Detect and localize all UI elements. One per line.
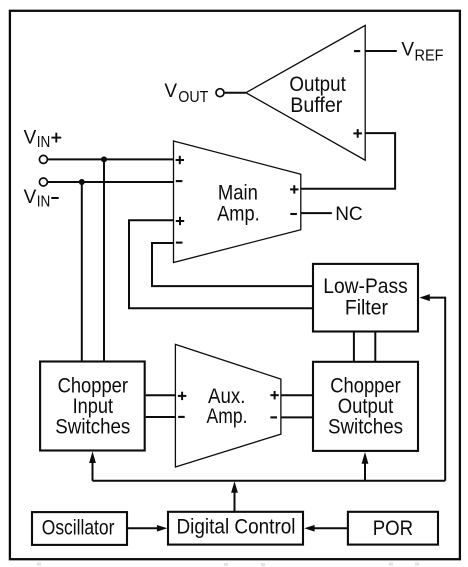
terminal VIN- open circle <box>39 178 47 186</box>
svg-text:Digital Control: Digital Control <box>177 516 296 539</box>
block Chopper Output Switches <box>313 362 418 451</box>
op-amp U3 Aux Amp <box>175 344 281 467</box>
svg-text:POR: POR <box>373 517 413 540</box>
label VOUT <box>164 81 208 106</box>
label VREF <box>401 40 443 65</box>
U1 output plus sign <box>290 185 298 193</box>
wire U1 output minus to NC <box>301 212 332 214</box>
svg-text:Filter: Filter <box>345 297 388 320</box>
terminal VOUT open circle <box>216 89 224 97</box>
wire U3 plus output to Chopper Output Switches <box>281 394 313 396</box>
wire VIN- junction down to Chopper Input Switches <box>81 182 83 362</box>
cut-off caption remnants below frame <box>37 563 419 567</box>
wire U3 minus output to Chopper Output Switches <box>281 416 313 418</box>
wire 2 Low-Pass Filter to Chopper Output Switches <box>374 331 376 362</box>
svg-text:Buffer: Buffer <box>290 94 342 117</box>
svg-text:Low-Pass: Low-Pass <box>323 275 407 298</box>
block Oscillator <box>32 512 127 545</box>
U1 output minus sign <box>290 213 297 215</box>
arrow bus into Chopper Output Switches <box>362 452 369 481</box>
wire U2 minus input to VREF <box>365 50 397 52</box>
block Low-Pass Filter <box>313 264 418 332</box>
svg-text:Chopper: Chopper <box>330 375 400 398</box>
wire 1 Low-Pass Filter to Chopper Output Switches <box>353 331 355 362</box>
svg-text:Amp.: Amp. <box>207 405 248 428</box>
svg-text:Chopper: Chopper <box>58 375 128 398</box>
wire control bus from digital control <box>93 480 446 482</box>
op-amp U1 Main Amp <box>174 141 301 263</box>
label NC no connect <box>335 204 362 225</box>
wire VIN+ junction down to Chopper Input Switches <box>103 159 105 361</box>
wire Chopper Input Switches to U3 input 2 <box>146 416 176 418</box>
U3 output minus sign <box>270 416 277 418</box>
svg-text:Switches: Switches <box>328 416 403 439</box>
op-amp U2 Output Buffer <box>246 25 365 160</box>
U2 inverting input minus sign <box>354 50 360 52</box>
U1 input 3 plus sign <box>176 217 184 225</box>
svg-text:Main: Main <box>218 182 258 205</box>
label VIN+ <box>24 128 62 151</box>
svg-text:Switches: Switches <box>55 416 130 439</box>
block POR <box>348 512 438 545</box>
arrow bus into Chopper Input Switches <box>89 451 96 480</box>
node junction dot on VIN- wire <box>79 179 85 185</box>
arrow Oscillator to Digital Control <box>127 525 167 532</box>
block Digital Control <box>168 512 303 545</box>
block Chopper Input Switches <box>40 362 145 451</box>
arrow POR to Digital Control <box>304 525 348 532</box>
U2 non-inverting input plus sign <box>353 129 362 138</box>
terminal VIN+ open circle <box>39 155 47 163</box>
wire Low-Pass Filter output to U1 input 3 <box>129 220 314 308</box>
svg-text:Amp.: Amp. <box>217 202 260 225</box>
U3 input minus sign <box>178 416 185 418</box>
arrow Digital Control up to bus <box>231 481 238 511</box>
U1 input 2 minus sign <box>176 180 183 182</box>
svg-text:Output: Output <box>289 73 346 96</box>
label VIN- <box>24 187 59 211</box>
wire Chopper Input Switches to U3 input 1 <box>146 394 176 396</box>
wire bus up to Low-Pass Filter with arrow <box>419 294 445 481</box>
U3 input plus sign <box>178 392 186 400</box>
svg-text:Oscillator: Oscillator <box>42 517 115 540</box>
U1 input 1 plus sign <box>176 156 184 164</box>
U1 input 4 minus sign <box>176 242 183 244</box>
node junction dot on VIN+ wire <box>101 156 107 162</box>
wire Low-Pass Filter output to U1 input 4 <box>152 243 314 286</box>
svg-text:NC: NC <box>335 204 362 225</box>
U3 output plus sign <box>270 391 278 399</box>
wire VOUT terminal to U2 apex <box>225 92 246 94</box>
wire VIN+ to U1 input 1 <box>48 158 174 160</box>
wire U1 plus output to U2 plus input <box>301 133 395 189</box>
wire VIN- to U1 input 2 <box>48 181 174 183</box>
